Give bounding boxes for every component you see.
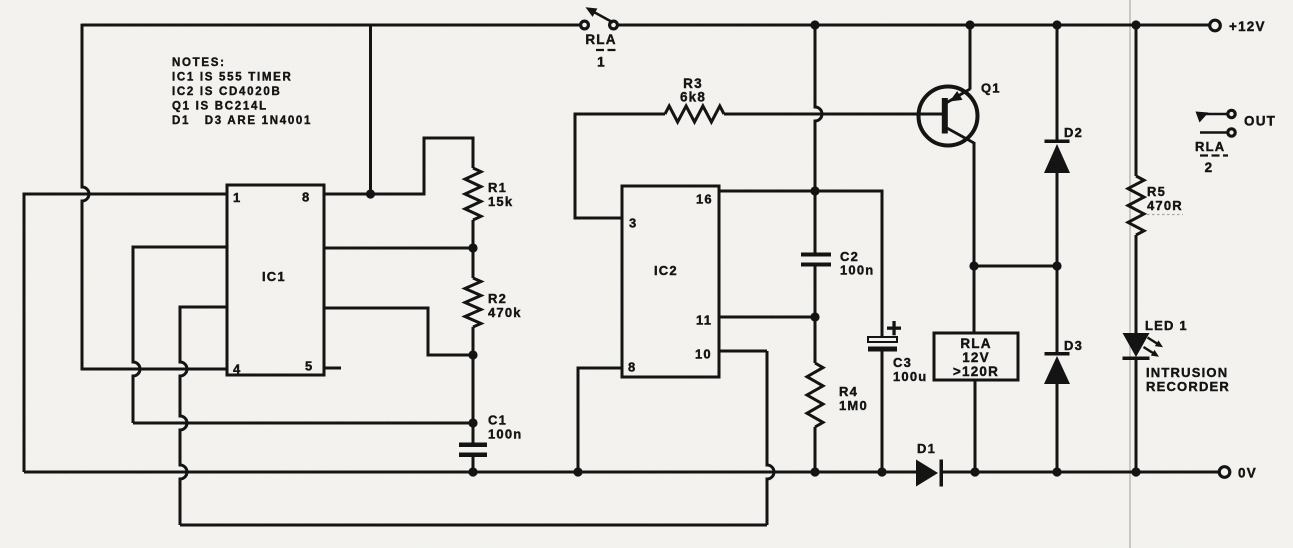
wire R5 to LED bbox=[1135, 235, 1138, 334]
node R1/R2 junction bbox=[468, 243, 477, 252]
wire Q1 collector down to relay coil bbox=[973, 142, 976, 333]
relay contact RLA/2 bottom wire bbox=[1200, 131, 1228, 134]
relay contact RLA/2 top terminal bbox=[1228, 110, 1235, 117]
wire +12V rail left segment bbox=[82, 24, 581, 27]
resistor R2 bbox=[465, 278, 481, 327]
terminal 0V bbox=[1219, 467, 1230, 478]
wire RLA coil to 0V bbox=[974, 380, 977, 472]
wire IC1 pin5 stub bbox=[324, 367, 341, 370]
wire C2 bottom to pin11 wire bbox=[814, 267, 817, 364]
wire R3 to Q1 base bbox=[724, 113, 943, 116]
wire bottom return (IC2 pin10 to IC1) bbox=[180, 524, 767, 527]
wire IC2 pin10 vertical (hop over 0V rail) bbox=[767, 351, 774, 525]
wire IC2 pin16 to C3 top bbox=[719, 191, 882, 336]
LED LED1 bbox=[1123, 333, 1150, 357]
capacitor C2 bbox=[801, 253, 831, 257]
node C2/R4/pin11 junction bbox=[810, 312, 819, 321]
node C3 at 0V bbox=[877, 467, 886, 476]
node R5 at rail bbox=[1131, 20, 1140, 29]
node Q1 emitter at rail bbox=[965, 20, 974, 29]
diode D2 bbox=[1045, 140, 1070, 144]
op-amp IC1 555 timer box bbox=[227, 185, 324, 375]
wire IC1 discharge pin to R1/R2 junction bbox=[324, 247, 473, 250]
node C1 to 0V bbox=[468, 467, 477, 476]
wire +12V to R5 bbox=[1135, 25, 1138, 176]
node IC1 pin8 junction bbox=[366, 189, 375, 198]
wire R4 bottom lead bbox=[814, 427, 817, 472]
transistor Q1 collector bbox=[946, 128, 974, 144]
resistor R5 bbox=[1128, 176, 1144, 235]
node Q1 collector junction bbox=[969, 261, 978, 270]
wire IC2 pin11 bbox=[719, 316, 815, 319]
transistor Q1 emitter with arrow bbox=[946, 89, 970, 103]
diode D1 bbox=[916, 460, 938, 487]
capacitor C1 bbox=[459, 443, 487, 448]
node RLA coil at 0V bbox=[970, 467, 979, 476]
node R4 at 0V bbox=[810, 467, 819, 476]
node LED at 0V bbox=[1131, 467, 1140, 476]
resistor R1 bbox=[465, 168, 481, 220]
node R2 bottom junction bbox=[468, 350, 477, 359]
wire IC1 pin4 net (+12V vertical x=82, hop at pin1 wire) bbox=[82, 24, 227, 369]
wire LED to 0V bbox=[1135, 360, 1138, 472]
capacitor C3 plus sign bbox=[887, 327, 901, 330]
relay coil RLA box bbox=[934, 333, 1018, 380]
wire IC2 pin10 horizontal bbox=[719, 350, 767, 353]
wire C1 bottom lead bbox=[472, 457, 475, 472]
wire +12V rail right segment bbox=[618, 24, 1211, 27]
resistor R4 bbox=[807, 363, 823, 427]
LED LED1 light arrows bbox=[1148, 338, 1158, 344]
terminal +12V bbox=[1210, 20, 1221, 31]
wire 0V rail left of D1 bbox=[24, 471, 916, 474]
relay contact RLA/1 blade bbox=[592, 11, 613, 23]
wire collector to D2/D3 column bbox=[974, 265, 1057, 268]
wire IC2 pin8 to 0V bbox=[578, 368, 622, 472]
wire R2 to C1 bbox=[472, 355, 475, 443]
node IC2 pin8 at 0V bbox=[573, 467, 582, 476]
node D2 at rail bbox=[1052, 20, 1061, 29]
relay contact RLA/1 right terminal bbox=[610, 21, 618, 29]
wire IC1 lower-left pin net (x=180) down bbox=[180, 307, 227, 525]
op-amp IC2 CD4020B box bbox=[622, 186, 719, 377]
wire IC1 pin2 net horizontal to C1 bbox=[133, 422, 473, 425]
node D3 at 0V bbox=[1052, 467, 1061, 476]
node C2 column at pin16 wire bbox=[810, 186, 819, 195]
wire IC1 pin1 net to 0V (left outer) bbox=[24, 194, 227, 472]
node D2/D3 junction bbox=[1052, 261, 1061, 270]
node C1 top junction bbox=[468, 418, 477, 427]
wire C3 bottom lead bbox=[881, 352, 884, 473]
diode D3 bbox=[1045, 352, 1070, 356]
relay contact RLA/2 bottom terminal bbox=[1228, 129, 1235, 136]
transistor Q1 circle bbox=[919, 87, 978, 146]
resistor R3 bbox=[665, 106, 724, 122]
wire D2 to junction bbox=[1056, 173, 1059, 266]
capacitor C3 bbox=[868, 337, 897, 342]
wire +12V to C2 column (hop over R3 wire) bbox=[815, 25, 822, 254]
wire IC1 pin8 to +12V rail bbox=[369, 25, 372, 194]
wire D3 to 0V bbox=[1056, 384, 1059, 472]
wire +12V to D2 bbox=[1056, 25, 1059, 141]
relay contact RLA/2 blade bbox=[1206, 113, 1228, 116]
wire 0V rail right of D1 bbox=[940, 471, 1220, 474]
relay contact RLA/1 left terminal bbox=[581, 21, 589, 29]
wire R2 bottom lead bbox=[472, 327, 475, 355]
wire junction to D3 bbox=[1056, 266, 1059, 354]
wire Q1 emitter to +12V rail bbox=[969, 25, 972, 90]
wire IC1 pin2 net (x=133) to C1 top bbox=[133, 247, 227, 423]
wire IC1 threshold pin to R2 bottom bbox=[324, 308, 473, 355]
wire IC2 pin3 vertical bbox=[575, 114, 665, 218]
wire R1 bottom lead bbox=[472, 220, 475, 278]
transistor Q1 base bar bbox=[942, 98, 948, 134]
node C2 column at rail bbox=[810, 20, 819, 29]
wire IC1 pin8 to R1 top hook bbox=[324, 138, 473, 194]
